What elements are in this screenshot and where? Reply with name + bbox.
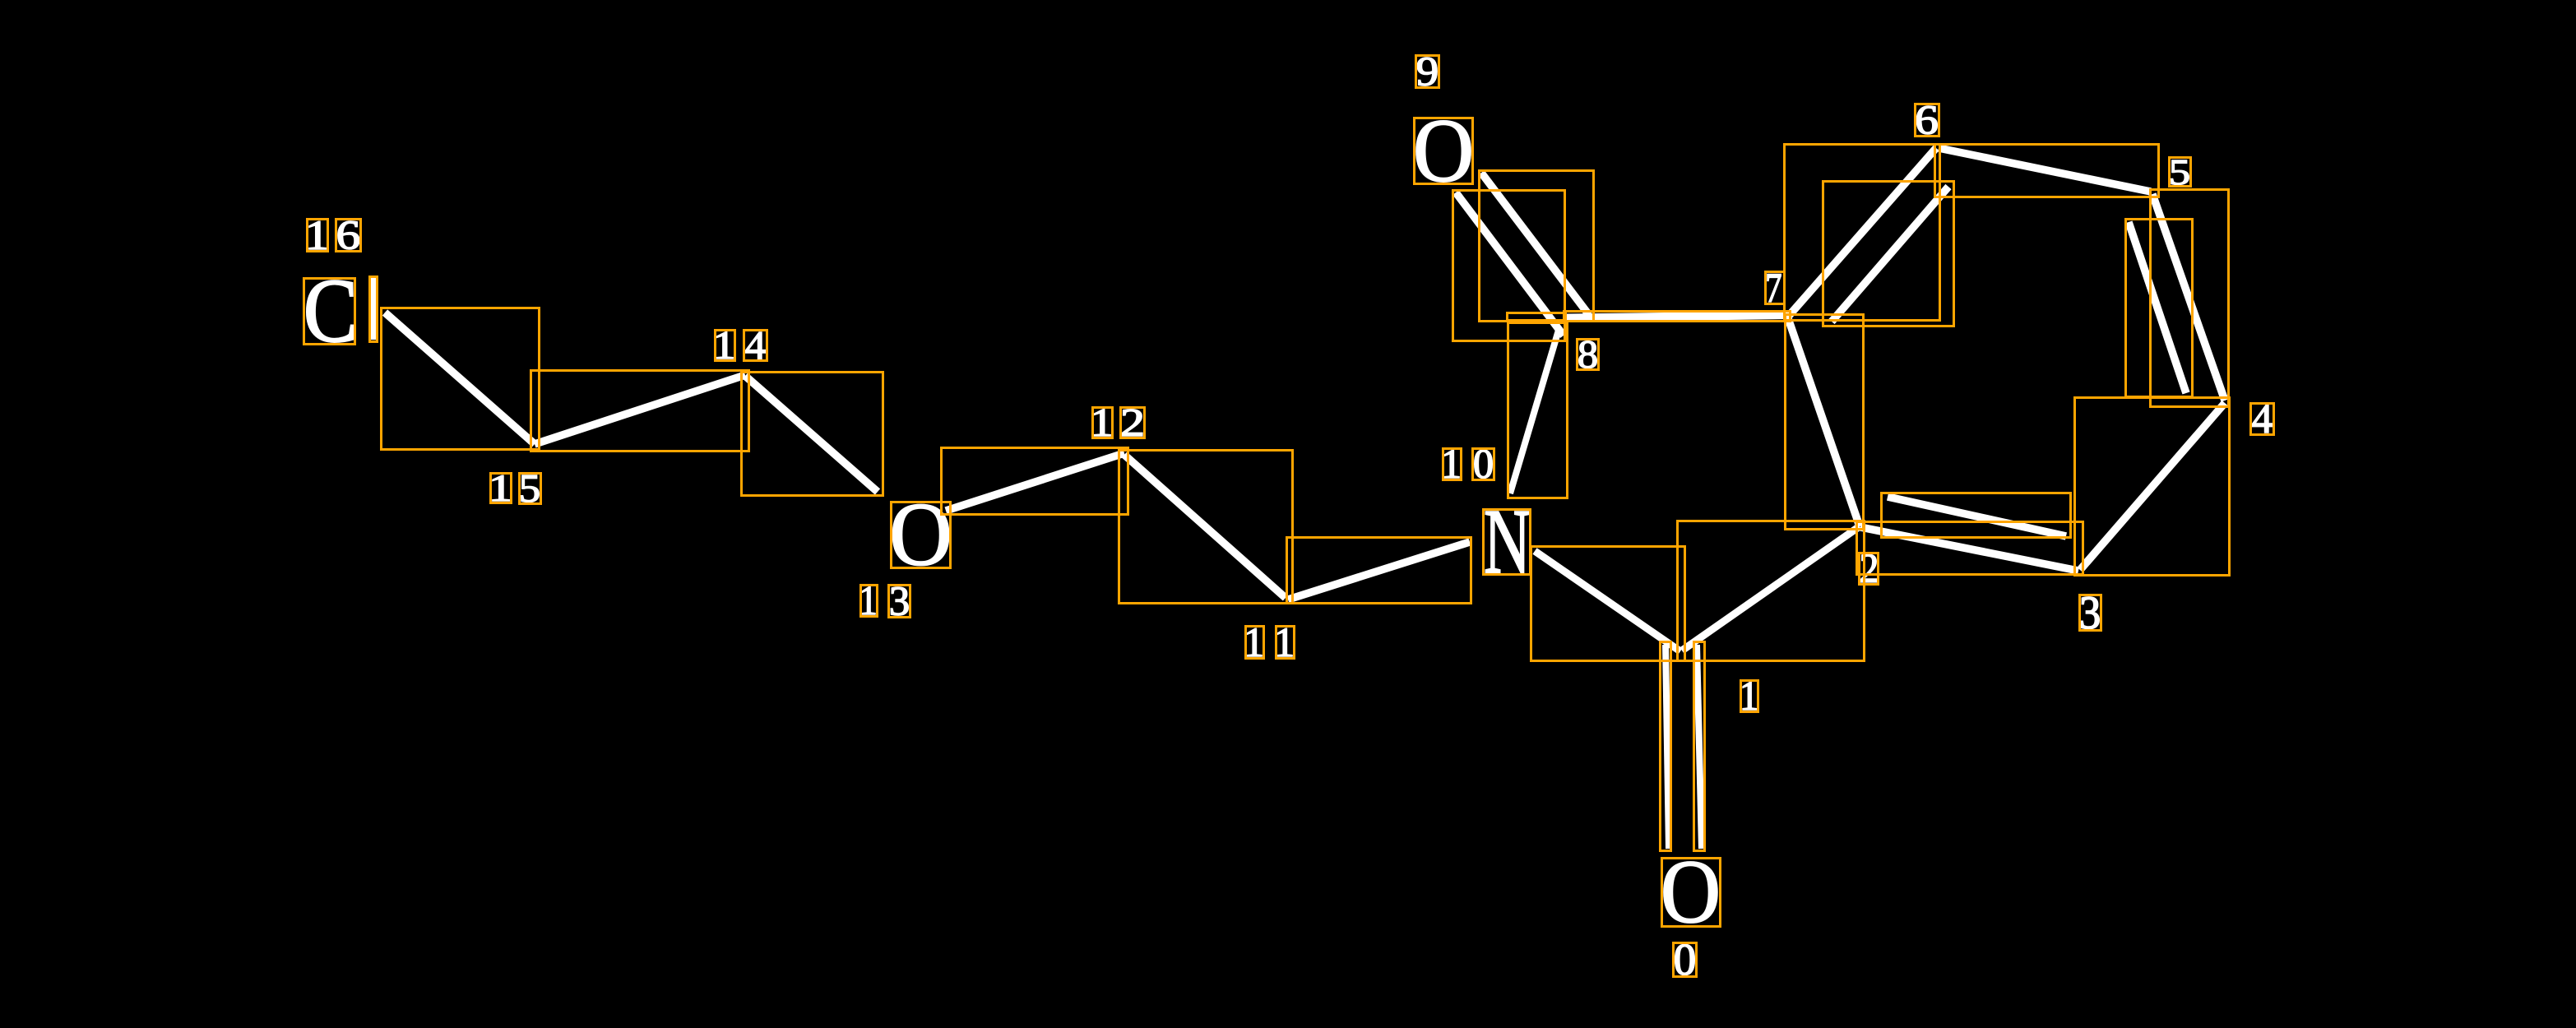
- bbox atom 10 N: [1484, 510, 1531, 575]
- bbox label 8 digit: [1578, 340, 1599, 370]
- bond 10-8: [1510, 327, 1559, 493]
- bond 2-3 inner: [1888, 497, 2066, 536]
- bbox bond 11-10: [1287, 538, 1471, 604]
- bbox bond 5-6: [1935, 145, 2159, 197]
- bbox bond 3-4: [2075, 398, 2230, 576]
- bbox label 10 digit 0: [1473, 449, 1494, 480]
- bbox bond 6-7 inner: [1823, 182, 1954, 326]
- bond 10-1: [1535, 551, 1680, 651]
- bbox bond 2-3 inner: [1882, 493, 2071, 538]
- bbox label 13 digit 1: [861, 586, 878, 617]
- bbox bond 7-8: [1564, 312, 1791, 322]
- bbox bond 2-3 main: [1857, 522, 2083, 575]
- bbox bond 4-5 inner: [2126, 220, 2193, 397]
- bond 16-15: [385, 313, 535, 444]
- bbox label 0 digit: [1674, 943, 1697, 977]
- svg-text:C: C: [303, 260, 359, 361]
- bond 8-9 inner: [1456, 192, 1564, 336]
- bond 7-2: [1788, 318, 1860, 526]
- bbox label 11 digit 1a: [1246, 627, 1264, 659]
- bbox bond 14-13: [742, 373, 883, 496]
- bond 1-2: [1682, 526, 1860, 651]
- bbox atom 9 O: [1415, 118, 1473, 184]
- bond 13-12: [946, 453, 1124, 511]
- bbox label 15 digit 5: [520, 474, 541, 504]
- bond 4-5 inner: [2129, 222, 2186, 393]
- bbox label 16 digit 6: [336, 220, 361, 252]
- bbox label 11 digit 1b: [1276, 627, 1295, 659]
- bbox bond 15-14: [531, 371, 749, 451]
- bond 5-6: [1939, 148, 2151, 192]
- bbox label 3 digit: [2080, 595, 2101, 631]
- bbox label 12 digit 1: [1093, 408, 1113, 438]
- bbox label 5 digit: [2170, 158, 2191, 187]
- bond 7-8: [1565, 315, 1789, 318]
- bbox bond 10-1: [1531, 547, 1685, 661]
- bond 4-5 main: [2152, 194, 2225, 401]
- bond 2-3 main: [1860, 527, 2078, 571]
- bond 0-1 line R: [1697, 645, 1702, 849]
- svg-text:O: O: [889, 485, 952, 585]
- bbox atom 16 C: [304, 279, 355, 345]
- bbox label 12 digit 2: [1121, 408, 1145, 438]
- bbox bond 7-2: [1786, 315, 1864, 530]
- bbox label 10 digit 1: [1443, 449, 1462, 480]
- bbox label 14 digit 4: [744, 331, 767, 361]
- bond 11-10: [1288, 542, 1470, 600]
- bond 6-7 main: [1788, 148, 1936, 317]
- bbox bond 12-11: [1119, 451, 1293, 604]
- bbox bond 1-2: [1678, 521, 1865, 661]
- bbox atom 0 O: [1662, 859, 1721, 927]
- bbox bond 0-1 line R: [1694, 642, 1705, 851]
- bbox label 4 digit: [2251, 404, 2274, 435]
- svg-text:N: N: [1484, 491, 1531, 594]
- bond 0-1 line L: [1666, 645, 1669, 849]
- bbox label 6 digit: [1916, 104, 1939, 137]
- bbox label 16 digit 1: [308, 220, 328, 252]
- bbox label 14 digit 1: [716, 331, 735, 361]
- bbox label 1 digit: [1741, 681, 1758, 712]
- bond 15-14: [535, 375, 745, 444]
- bbox atom 13 O: [892, 502, 951, 568]
- bond 12-11: [1124, 455, 1286, 598]
- bond 14-13: [745, 376, 878, 492]
- bbox bond 13-12: [942, 448, 1128, 515]
- bbox label 15 digit 1: [491, 474, 512, 503]
- bond 6-7 inner: [1832, 187, 1948, 322]
- bbox bond 8-9 outer: [1480, 171, 1594, 322]
- bbox label 7 digit: [1766, 272, 1785, 304]
- bbox bond 6-7 main: [1785, 145, 1940, 321]
- bbox label 13 digit 3: [889, 586, 910, 618]
- bond 3-4: [2080, 403, 2225, 570]
- bbox bond axis 8-7: [1508, 313, 1566, 321]
- bbox bond 4-5 main: [2151, 190, 2229, 407]
- bbox bond 0-1 line L: [1661, 642, 1671, 851]
- bbox bond 10-8: [1508, 323, 1568, 498]
- bbox label 9 digit: [1416, 56, 1439, 88]
- bbox atom 16 l: [370, 277, 378, 342]
- bbox bond 8-9 inner: [1453, 191, 1565, 341]
- svg-text:O: O: [1413, 101, 1474, 201]
- bbox label 2 digit: [1860, 553, 1879, 585]
- bbox bond 16-15: [382, 308, 540, 450]
- bond 8-9 outer: [1481, 173, 1589, 315]
